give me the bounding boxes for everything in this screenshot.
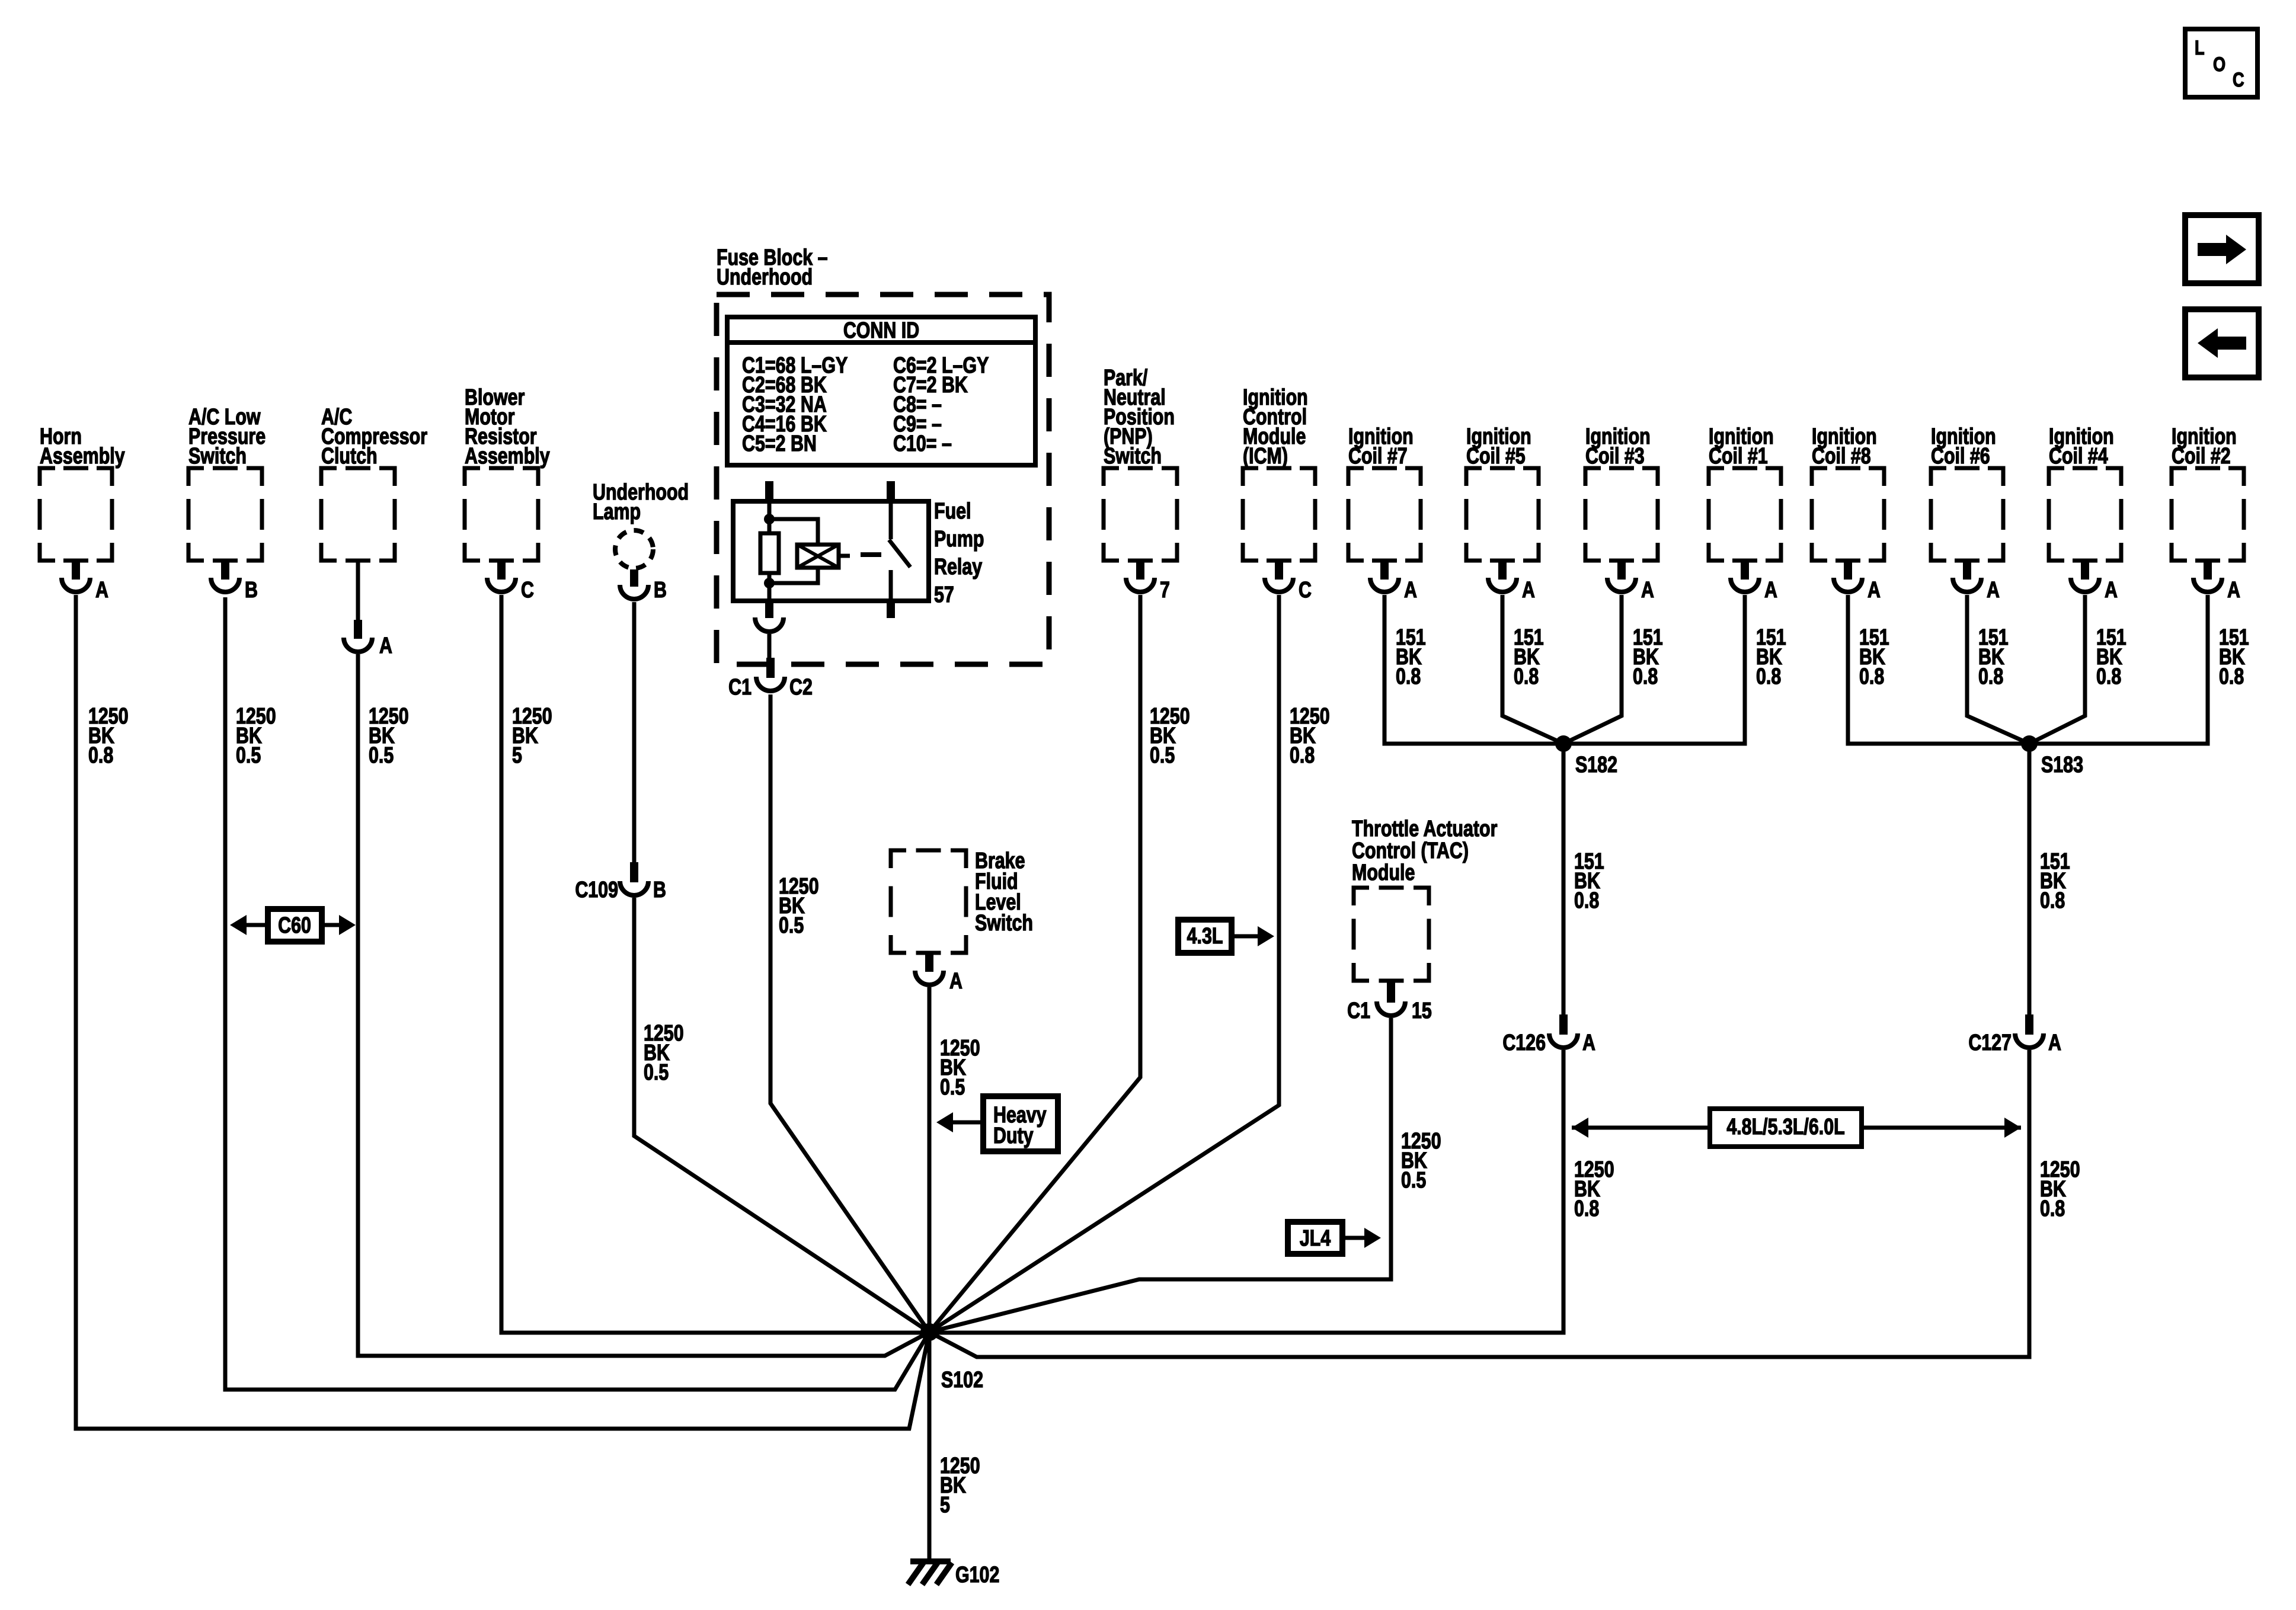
svg-text:Coil #1: Coil #1 — [1709, 444, 1768, 469]
svg-text:0.8: 0.8 — [1633, 664, 1658, 689]
wire S102 to G102 — [928, 1332, 932, 1561]
CONN ID table — [727, 317, 1035, 465]
relay actuation dashed link — [861, 552, 881, 557]
svg-text:0.5: 0.5 — [779, 913, 804, 938]
svg-text:Coil #7: Coil #7 — [1348, 444, 1408, 469]
wire ignition coil #8 to S183 — [1848, 595, 2029, 744]
svg-text:0.8: 0.8 — [2219, 664, 2244, 689]
svg-text:A: A — [2105, 578, 2118, 603]
svg-text:0.8: 0.8 — [1574, 888, 1599, 913]
svg-text:A: A — [1522, 578, 1535, 603]
underhood lamp connector pin B — [630, 569, 638, 587]
svg-text:C: C — [1299, 578, 1312, 603]
fuse block - underhood (dashed enclosure) — [717, 295, 1049, 664]
svg-text:C2: C2 — [789, 675, 813, 700]
svg-text:Coil #4: Coil #4 — [2049, 444, 2108, 469]
svg-text:57: 57 — [934, 582, 954, 607]
svg-text:0.5: 0.5 — [1150, 743, 1175, 768]
wire A/C low pressure switch to S102 — [225, 597, 929, 1390]
svg-text:4.3L: 4.3L — [1187, 924, 1223, 949]
fuse block C1/C2 connector — [766, 658, 775, 678]
A/C compressor clutch inline connector pin A — [354, 620, 362, 639]
svg-text:Switch: Switch — [188, 444, 247, 469]
svg-text:0.8: 0.8 — [2096, 664, 2121, 689]
ignition coil #8 box + connector pin A — [1812, 468, 1884, 561]
svg-text:A: A — [1582, 1030, 1595, 1055]
svg-text:(ICM): (ICM) — [1243, 444, 1288, 469]
svg-text:C5=2 BN: C5=2 BN — [742, 431, 817, 456]
svg-text:A: A — [1641, 578, 1654, 603]
svg-text:Coil #5: Coil #5 — [1466, 444, 1526, 469]
svg-text:0.5: 0.5 — [1401, 1168, 1426, 1193]
wire C127 to S102 — [929, 1050, 2029, 1357]
svg-text:0.8: 0.8 — [1859, 664, 1884, 689]
svg-text:A: A — [1764, 578, 1777, 603]
svg-text:Coil #3: Coil #3 — [1585, 444, 1645, 469]
svg-text:Coil #2: Coil #2 — [2172, 444, 2231, 469]
svg-text:Switch: Switch — [1104, 444, 1162, 469]
ignition coil #3 box + connector pin A — [1585, 468, 1658, 561]
splice S102 — [920, 1323, 938, 1341]
svg-text:0.8: 0.8 — [1514, 664, 1539, 689]
wire PNP switch to S102 — [929, 595, 1140, 1332]
wire A/C compressor clutch to S102 — [358, 654, 929, 1356]
svg-text:C10= –: C10= – — [893, 431, 952, 456]
svg-text:S183: S183 — [2041, 753, 2083, 777]
svg-text:A: A — [379, 633, 392, 658]
ignition control module box + connector pin C — [1243, 468, 1315, 561]
svg-text:A: A — [1404, 578, 1417, 603]
relay coil symbol (box with X) — [797, 545, 839, 568]
svg-text:G102: G102 — [955, 1563, 999, 1587]
wire ignition coil #1 to S182 — [1563, 595, 1745, 744]
wire C126 to S102 — [929, 1050, 1563, 1333]
ignition coil #5 box + connector pin A — [1466, 468, 1539, 561]
svg-text:0.8: 0.8 — [1978, 664, 2003, 689]
svg-text:A: A — [95, 578, 108, 603]
underhood lamp (dashed circle) — [615, 530, 653, 568]
svg-text:15: 15 — [1412, 998, 1432, 1023]
wire fuse block C2 to S102 — [770, 694, 929, 1332]
heavy duty callout box with arrow — [983, 1096, 1058, 1151]
ignition coil #7 box + connector pin A — [1348, 468, 1421, 561]
wire blower motor resistor to S102 — [501, 595, 929, 1333]
C60 callout box with double arrows — [268, 909, 322, 942]
svg-text:S102: S102 — [941, 1368, 983, 1393]
svg-text:Coil #6: Coil #6 — [1931, 444, 1990, 469]
wire S183 to C127 — [2028, 744, 2032, 1014]
svg-text:C109: C109 — [575, 878, 618, 902]
svg-text:Assembly: Assembly — [40, 444, 125, 469]
svg-text:JL4: JL4 — [1300, 1226, 1331, 1251]
A/C compressor clutch box — [321, 468, 395, 561]
svg-text:C126: C126 — [1502, 1030, 1546, 1055]
svg-text:Fuel: Fuel — [934, 499, 971, 524]
svg-text:4.8L/5.3L/6.0L: 4.8L/5.3L/6.0L — [1726, 1115, 1844, 1140]
forward arrow box — [2185, 215, 2259, 283]
svg-text:0.8: 0.8 — [1290, 743, 1315, 768]
JL4 callout box with arrow — [1288, 1222, 1342, 1254]
svg-text:A: A — [2048, 1030, 2061, 1055]
svg-text:Coil #8: Coil #8 — [1812, 444, 1871, 469]
connector C127 pin A — [2025, 1014, 2033, 1035]
wire ignition coil #7 to S182 — [1384, 595, 1563, 744]
svg-text:C: C — [2233, 68, 2244, 91]
wire ignition coil #4 to S183 — [2029, 595, 2085, 744]
relay junction dots — [764, 514, 775, 524]
ignition coil #4 box + connector pin A — [2049, 468, 2121, 561]
svg-text:0.8: 0.8 — [1574, 1196, 1599, 1221]
svg-text:A: A — [1987, 578, 2000, 603]
A/C low pressure switch box + connector pin B — [188, 468, 262, 561]
svg-text:L: L — [2195, 36, 2205, 59]
svg-text:0.8: 0.8 — [1396, 664, 1421, 689]
svg-text:A: A — [949, 969, 962, 994]
svg-text:Module: Module — [1352, 860, 1415, 885]
relay pin stubs (bottom) — [765, 601, 773, 618]
svg-text:Underhood: Underhood — [717, 265, 813, 290]
ground G102 — [910, 1558, 951, 1564]
svg-text:C: C — [521, 578, 534, 603]
svg-text:B: B — [245, 578, 258, 603]
brake fluid level switch box — [891, 850, 966, 953]
svg-text:0.5: 0.5 — [940, 1075, 965, 1100]
svg-text:0.8: 0.8 — [1756, 664, 1781, 689]
relay output connector cup — [755, 617, 784, 632]
relay coil parallel branch — [769, 519, 818, 583]
relay resistor — [760, 533, 779, 573]
wire ignition coil #5 to S182 — [1502, 595, 1563, 744]
engine option box 4.8L/5.3L/6.0L with arrows — [1572, 1126, 1710, 1130]
backward arrow box — [2185, 309, 2259, 377]
svg-text:C60: C60 — [278, 913, 311, 938]
wire brake fluid switch to S102 — [928, 987, 932, 1332]
throttle actuator control (TAC) module box — [1354, 888, 1429, 981]
4.3L callout box with arrow — [1178, 920, 1232, 953]
wire ICM to S102 — [929, 595, 1279, 1332]
svg-text:C1: C1 — [728, 675, 752, 700]
svg-text:Throttle Actuator: Throttle Actuator — [1352, 817, 1497, 841]
blower motor resistor assembly box + connector pin C — [465, 468, 538, 561]
svg-text:A: A — [2227, 578, 2240, 603]
connector C126 pin A — [1559, 1014, 1568, 1035]
svg-text:B: B — [653, 878, 666, 902]
svg-text:C127: C127 — [1968, 1030, 2012, 1055]
relay coil branch vertical — [768, 501, 772, 601]
wire underhood lamp upper segment — [632, 602, 637, 862]
ignition coil #6 box + connector pin A — [1931, 468, 2003, 561]
svg-text:5: 5 — [512, 743, 522, 768]
svg-text:A: A — [1868, 578, 1881, 603]
svg-text:Clutch: Clutch — [321, 444, 378, 469]
svg-text:0.8: 0.8 — [88, 743, 113, 768]
svg-text:7: 7 — [1160, 578, 1170, 603]
relay pin stubs (top) — [765, 481, 773, 501]
svg-text:S182: S182 — [1575, 753, 1617, 777]
wire A/C compressor clutch upper segment — [356, 561, 360, 620]
wire TAC module to S102 — [929, 1018, 1391, 1332]
LOC legend box — [2185, 29, 2257, 97]
svg-text:0.8: 0.8 — [2040, 888, 2065, 913]
svg-text:0.8: 0.8 — [2040, 1196, 2065, 1221]
svg-text:5: 5 — [940, 1493, 950, 1518]
wire C109 to S102 — [634, 898, 929, 1332]
park/neutral position switch box + connector pin 7 — [1104, 468, 1177, 561]
wire S182 to C126 — [1562, 744, 1566, 1014]
svg-text:Switch: Switch — [975, 911, 1033, 936]
svg-text:Control (TAC): Control (TAC) — [1352, 838, 1469, 863]
ignition coil #1 box + connector pin A — [1709, 468, 1781, 561]
fuel pump relay box — [733, 501, 929, 601]
TAC connector C1 pin 15 — [1387, 981, 1395, 1003]
splice S183 — [2021, 735, 2038, 752]
svg-text:Relay: Relay — [934, 555, 982, 580]
wire ignition coil #2 to S183 — [2029, 595, 2208, 744]
wire horn assembly to S102 — [76, 595, 929, 1429]
svg-text:0.5: 0.5 — [236, 743, 261, 768]
ignition coil #2 box + connector pin A — [2172, 468, 2244, 561]
svg-text:Pump: Pump — [934, 527, 984, 552]
svg-text:O: O — [2213, 53, 2225, 76]
svg-text:0.5: 0.5 — [369, 743, 394, 768]
horn assembly box + connector pin A — [40, 468, 112, 561]
wire ignition coil #6 to S183 — [1967, 595, 2029, 744]
svg-text:C1: C1 — [1347, 998, 1370, 1023]
svg-text:Assembly: Assembly — [465, 444, 550, 469]
relay switch contacts — [889, 501, 893, 539]
svg-text:CONN ID: CONN ID — [843, 318, 919, 343]
svg-text:Duty: Duty — [993, 1124, 1034, 1148]
wire ignition coil #3 to S182 — [1563, 595, 1622, 744]
wire relay to fuse block edge — [768, 634, 772, 658]
svg-text:B: B — [654, 578, 667, 603]
svg-text:0.5: 0.5 — [644, 1060, 669, 1085]
splice S182 — [1555, 735, 1572, 752]
connector C109 pin B — [630, 862, 638, 882]
brake fluid level switch connector pin A — [925, 953, 933, 972]
svg-text:Lamp: Lamp — [593, 500, 641, 524]
